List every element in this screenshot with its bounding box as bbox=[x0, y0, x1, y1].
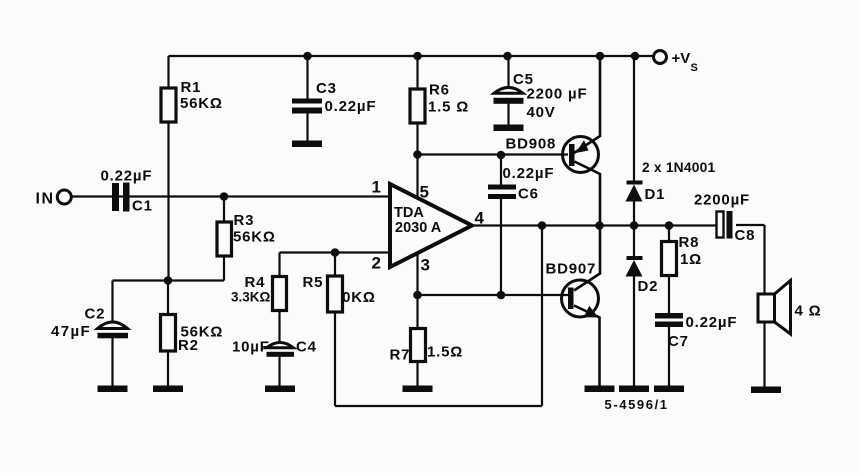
svg-text:3: 3 bbox=[421, 256, 430, 275]
svg-text:C2: C2 bbox=[85, 306, 106, 323]
wire node X horizontal bbox=[113, 279, 225, 281]
diode D1 bbox=[626, 181, 643, 202]
node output diodes bbox=[630, 221, 639, 230]
ground R7 bbox=[403, 386, 433, 393]
svg-text:R4: R4 bbox=[245, 274, 266, 291]
capacitor C7 bbox=[655, 313, 683, 327]
node X bbox=[164, 276, 173, 285]
transistor Q1 BD908 bbox=[563, 137, 599, 173]
wire C5 column bbox=[507, 56, 509, 125]
svg-text:40V: 40V bbox=[527, 104, 556, 121]
svg-text:56KΩ: 56KΩ bbox=[233, 229, 276, 246]
svg-text:D2: D2 bbox=[638, 278, 659, 295]
svg-text:1.5 Ω: 1.5 Ω bbox=[428, 99, 469, 116]
node IN R3 bbox=[220, 192, 229, 201]
svg-text:BD908: BD908 bbox=[506, 136, 557, 153]
svg-text:4 Ω: 4 Ω bbox=[795, 303, 822, 320]
ground D2 bbox=[619, 386, 649, 393]
ground BD907 bbox=[585, 386, 615, 393]
wire pin5 node to BD908 base bbox=[418, 153, 569, 155]
ground R2 bbox=[153, 386, 183, 393]
capacitor C8 bbox=[717, 211, 733, 239]
wire feedback vertical bbox=[541, 226, 543, 407]
wire IN line bbox=[71, 195, 390, 197]
ground C3 bbox=[292, 141, 322, 148]
node pin3 junction bbox=[413, 291, 422, 300]
node C6 bottom bbox=[497, 291, 506, 300]
svg-text:2: 2 bbox=[372, 254, 381, 273]
svg-text:3.3KΩ: 3.3KΩ bbox=[231, 290, 271, 305]
speaker LS1 bbox=[758, 281, 791, 335]
svg-text:2200µF: 2200µF bbox=[694, 192, 750, 209]
svg-text:BD907: BD907 bbox=[546, 261, 597, 278]
resistor R2 bbox=[161, 315, 176, 352]
svg-text:C6: C6 bbox=[518, 186, 539, 203]
wire pin3 column bbox=[416, 253, 418, 388]
resistor R1 bbox=[161, 88, 176, 122]
wire C3 column bbox=[306, 56, 308, 141]
svg-text:0.22µF: 0.22µF bbox=[325, 98, 377, 115]
svg-text:R1: R1 bbox=[181, 79, 202, 96]
svg-text:1.5Ω: 1.5Ω bbox=[427, 344, 463, 361]
capacitor C5 bbox=[494, 87, 524, 103]
wire C6 column bbox=[500, 155, 502, 296]
svg-text:R7: R7 bbox=[390, 347, 411, 364]
wire R1 column top bbox=[167, 56, 169, 88]
terminal IN bbox=[57, 190, 71, 204]
wire R6 column bbox=[416, 56, 418, 155]
svg-text:R2: R2 bbox=[178, 337, 199, 354]
svg-text:56KΩ: 56KΩ bbox=[180, 95, 223, 112]
ground C4 bbox=[265, 386, 295, 393]
ground C7 bbox=[654, 386, 684, 393]
diode D2 bbox=[626, 256, 643, 277]
node pin2 R5 bbox=[331, 248, 340, 257]
wire speaker to ground bbox=[763, 322, 765, 388]
wire C8 to speaker bbox=[736, 225, 765, 294]
wire R2 column bbox=[167, 281, 169, 389]
svg-text:1: 1 bbox=[372, 178, 381, 197]
svg-text:0.22µF: 0.22µF bbox=[101, 168, 153, 185]
svg-text:D1: D1 bbox=[645, 186, 666, 203]
svg-text:S: S bbox=[691, 62, 698, 74]
svg-text:C4: C4 bbox=[296, 339, 317, 356]
node top rail C3 bbox=[303, 52, 312, 61]
wire BD907 emitter to ground bbox=[574, 306, 600, 389]
node top rail R6 bbox=[413, 52, 422, 61]
node output transistors bbox=[595, 221, 604, 230]
svg-text:+V: +V bbox=[672, 50, 691, 67]
wire C2 column bbox=[111, 281, 113, 389]
wire R1 column bottom to node X bbox=[167, 122, 169, 281]
resistor R6 bbox=[410, 89, 425, 123]
wire diode column bbox=[633, 56, 635, 388]
svg-text:4: 4 bbox=[475, 209, 485, 228]
wire R5 column bbox=[334, 253, 336, 407]
node output R8 bbox=[665, 221, 674, 230]
resistor R4 bbox=[273, 277, 287, 311]
ground C5 bbox=[494, 125, 524, 132]
svg-text:C1: C1 bbox=[132, 198, 153, 215]
svg-text:1Ω: 1Ω bbox=[680, 251, 702, 268]
wire BD908 emitter to rail bbox=[574, 56, 600, 153]
node top rail C5 bbox=[503, 52, 512, 61]
svg-text:47µF: 47µF bbox=[51, 323, 91, 340]
wire BD907 collector to output rail bbox=[574, 226, 600, 291]
svg-text:R5: R5 bbox=[303, 274, 324, 291]
svg-text:5-4596/1: 5-4596/1 bbox=[605, 397, 669, 412]
op-amp U1 TDA2030A bbox=[390, 184, 472, 267]
node output feedback bbox=[538, 221, 547, 230]
svg-text:C8: C8 bbox=[735, 227, 756, 244]
svg-text:0.22µF: 0.22µF bbox=[503, 165, 555, 182]
resistor R7 bbox=[411, 329, 426, 362]
wire output rail bbox=[472, 224, 717, 226]
svg-text:C3: C3 bbox=[316, 80, 337, 97]
transistor Q2 BD907 bbox=[562, 280, 599, 318]
wire pin5 column bbox=[416, 155, 418, 199]
resistor R8 bbox=[662, 242, 677, 276]
svg-text:10µF: 10µF bbox=[232, 339, 270, 356]
capacitor C6 bbox=[488, 185, 516, 200]
svg-text:5: 5 bbox=[420, 183, 429, 202]
wire pin2 line bbox=[280, 251, 391, 253]
wire top +Vs rail bbox=[169, 55, 653, 57]
svg-text:R6: R6 bbox=[429, 82, 450, 99]
svg-text:IN: IN bbox=[36, 191, 55, 208]
node top rail BD908 bbox=[596, 52, 605, 61]
ground C2 bbox=[98, 386, 128, 393]
svg-text:C7: C7 bbox=[668, 333, 689, 350]
capacitor C3 bbox=[292, 99, 322, 114]
wire R3 column bbox=[223, 197, 225, 281]
svg-text:0.22µF: 0.22µF bbox=[686, 314, 738, 331]
svg-text:2030 A: 2030 A bbox=[395, 220, 442, 236]
svg-text:R3: R3 bbox=[234, 212, 255, 229]
capacitor C1 bbox=[112, 183, 130, 212]
capacitor C4 bbox=[267, 343, 295, 357]
svg-text:TDA: TDA bbox=[394, 205, 424, 221]
wire feedback bottom bbox=[335, 405, 542, 407]
capacitor C2 bbox=[98, 322, 129, 338]
svg-text:2 x 1N4001: 2 x 1N4001 bbox=[642, 160, 715, 175]
wire pin3 node to BD907 base bbox=[418, 294, 569, 296]
node top rail D1 bbox=[631, 52, 640, 61]
resistor R3 bbox=[217, 222, 232, 256]
wire R4 C4 column bbox=[278, 253, 280, 389]
ground speaker bbox=[751, 387, 781, 394]
svg-text:2200 µF: 2200 µF bbox=[527, 86, 588, 103]
wire R8 C7 column bbox=[668, 226, 670, 389]
node pin5 R6 bbox=[413, 150, 422, 159]
wire BD908 collector to output rail bbox=[575, 162, 601, 226]
resistor R5 bbox=[328, 276, 343, 312]
node pin5 C6 bbox=[497, 151, 506, 160]
terminal +Vs bbox=[654, 51, 667, 64]
svg-text:R8: R8 bbox=[679, 234, 700, 251]
